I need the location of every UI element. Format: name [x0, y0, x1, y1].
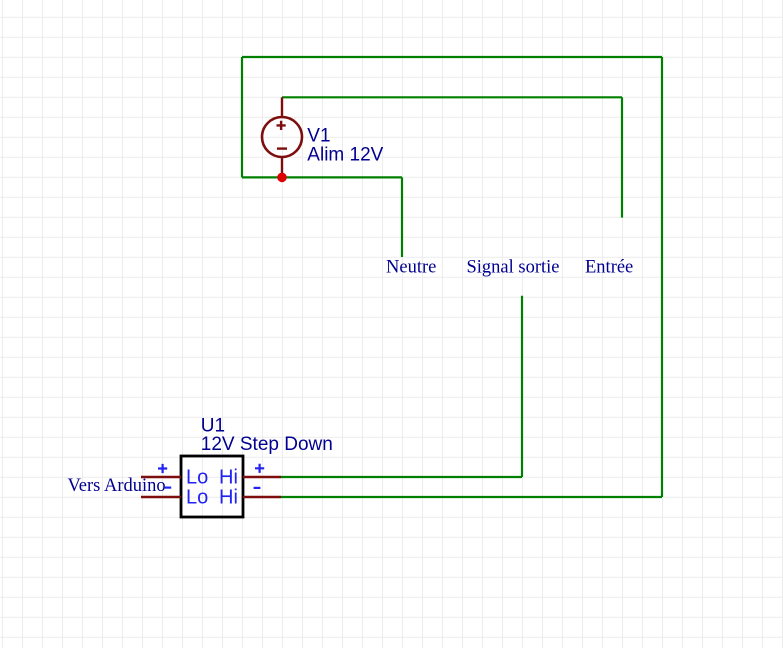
voltage source V1 — [262, 97, 302, 177]
svg-text:V1: V1 — [307, 125, 330, 146]
pin Hi 1 — [243, 476, 281, 478]
plus mark right — [255, 464, 264, 473]
wire — [661, 57, 663, 497]
wire — [521, 296, 523, 477]
wire — [281, 496, 662, 498]
svg-text:Entrée: Entrée — [585, 258, 633, 278]
svg-text:Alim 12V: Alim 12V — [307, 145, 383, 166]
pin Lo 2 — [141, 496, 181, 498]
wire — [401, 177, 403, 257]
wire — [621, 97, 623, 217]
svg-text:12V Step Down: 12V Step Down — [201, 434, 333, 455]
svg-text:Hi: Hi — [219, 486, 238, 508]
junction — [277, 173, 287, 183]
wire — [242, 176, 402, 178]
minus mark right — [254, 487, 261, 489]
wire — [281, 476, 522, 478]
svg-text:Lo: Lo — [186, 486, 208, 508]
converter U1 — [181, 456, 243, 517]
minus mark left — [165, 487, 171, 489]
svg-text:Signal sortie: Signal sortie — [467, 258, 560, 278]
pin Lo 1 — [141, 476, 181, 478]
wire — [282, 96, 622, 98]
svg-text:Hi: Hi — [219, 467, 238, 489]
svg-text:Lo: Lo — [186, 467, 208, 489]
wire — [242, 56, 662, 58]
wire — [241, 57, 243, 177]
svg-text:Vers Arduino: Vers Arduino — [68, 476, 166, 496]
svg-text:Neutre: Neutre — [386, 258, 436, 278]
pin Hi 2 — [243, 496, 281, 498]
plus mark left — [158, 464, 167, 473]
